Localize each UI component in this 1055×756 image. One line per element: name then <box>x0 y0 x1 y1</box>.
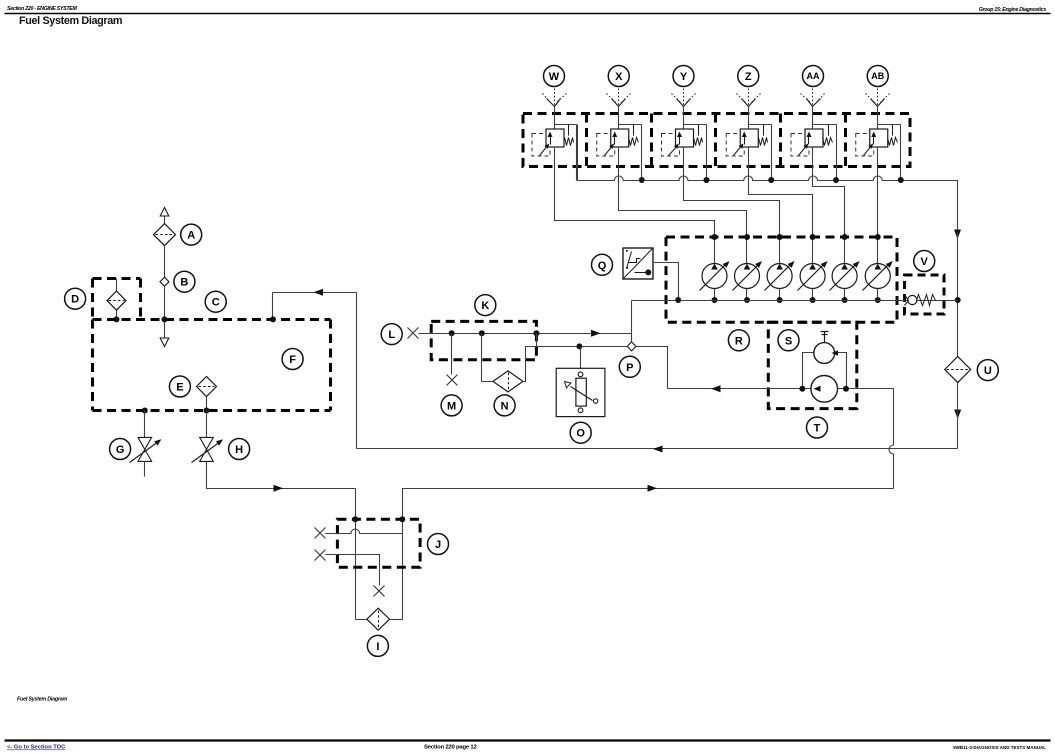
label D <box>65 288 86 309</box>
pump dashed box S <box>768 322 857 408</box>
injector return bus wire <box>578 125 958 234</box>
svg-text:Q: Q <box>598 260 607 272</box>
plugged port X1 <box>315 528 326 539</box>
tank drain arrow <box>160 320 169 347</box>
svg-text:K: K <box>481 300 489 312</box>
label S <box>778 330 799 351</box>
injector Z spray nozzle <box>737 89 761 107</box>
svg-text:R: R <box>735 335 743 347</box>
sensor Q wire <box>653 263 679 301</box>
label J <box>428 534 449 555</box>
flow arrow below U <box>954 410 961 420</box>
injector Z return branch wire <box>771 125 773 181</box>
svg-text:W: W <box>549 71 560 83</box>
injector driver solenoid 2 <box>733 234 763 303</box>
flow arrow down to filter U <box>954 230 961 240</box>
svg-text:Section 220 page 12: Section 220 page 12 <box>424 745 477 751</box>
label M <box>441 395 462 416</box>
injector driver solenoid 6 <box>863 234 893 303</box>
J top edge junction dots <box>352 516 405 522</box>
junction dot to sensor O <box>576 343 582 349</box>
injector Z solenoid valve <box>734 107 772 156</box>
label I <box>367 635 388 656</box>
plugged port X3 <box>374 586 385 597</box>
injector bank dashed enclosure <box>523 114 910 167</box>
wire from bus to fuel cooler line <box>957 233 959 357</box>
svg-text:Y: Y <box>680 71 688 83</box>
label O <box>570 422 591 443</box>
svg-text:P: P <box>626 362 633 374</box>
injector AA spray nozzle <box>801 89 825 107</box>
orifice B <box>160 277 169 286</box>
supply wire out of filter I <box>403 489 894 620</box>
injector AB supply wire to driver <box>877 147 879 237</box>
injector X return branch wire <box>641 125 643 181</box>
wire to filter N <box>482 334 493 382</box>
svg-text:<- Go to Section TOC: <- Go to Section TOC <box>7 745 66 751</box>
X1 wire with hop <box>325 529 402 533</box>
wire A to B <box>164 246 166 278</box>
wire B to tank <box>164 287 166 320</box>
return wire into tank bus <box>273 292 357 294</box>
injector W solenoid valve <box>540 107 577 156</box>
fittings dashed box K <box>431 321 536 359</box>
fuel filter U <box>945 357 971 383</box>
injector Y spray nozzle <box>672 89 696 107</box>
flow arrow toward pump suction <box>648 485 658 492</box>
label Q <box>592 254 613 275</box>
injector driver solenoid 5 <box>830 234 860 303</box>
injector W pilot dashed box <box>532 134 550 157</box>
label U <box>977 360 998 381</box>
svg-text:S: S <box>785 335 792 347</box>
svg-text:9WB11-3-DIAGNOSIS AND TESTS MA: 9WB11-3-DIAGNOSIS AND TESTS MANUAL <box>953 745 1046 750</box>
label G <box>110 439 131 460</box>
wire pump to tank return line <box>889 389 894 489</box>
svg-text:T: T <box>814 422 821 434</box>
suction filter I <box>356 608 403 630</box>
injector X supply wire to driver <box>619 147 747 237</box>
svg-text:Group 15: Engine Diagnostics: Group 15: Engine Diagnostics <box>979 7 1047 13</box>
return riser wire <box>356 293 358 449</box>
svg-text:AB: AB <box>871 71 884 81</box>
svg-text:C: C <box>212 297 220 309</box>
injector W supply wire to driver <box>555 147 715 237</box>
svg-text:U: U <box>984 365 992 377</box>
injector Z supply wire to driver <box>749 147 813 237</box>
injector AA label <box>803 66 824 87</box>
injector Z pilot dashed box <box>726 134 744 157</box>
injector Y label <box>673 66 694 87</box>
injector X label <box>608 66 629 87</box>
tank fittings dashed box J <box>337 519 420 567</box>
label N <box>494 395 515 416</box>
breather arrow above A <box>160 208 169 224</box>
svg-text:H: H <box>235 444 243 456</box>
X2 wire <box>326 555 380 586</box>
filler strainer filter <box>107 279 126 320</box>
injector W label <box>544 66 565 87</box>
pump suction/outlet wire <box>668 388 894 390</box>
jumper wire at K outlet <box>536 334 538 347</box>
restrictor valve H <box>192 411 224 463</box>
injector driver solenoid 4 <box>798 234 828 303</box>
injector Y solenoid valve <box>669 107 707 156</box>
label P <box>619 356 640 377</box>
injector W spray nozzle <box>543 89 567 107</box>
label R <box>728 330 749 351</box>
label B <box>174 271 195 292</box>
label V <box>914 251 935 272</box>
fuel inlet wire <box>419 333 632 335</box>
footer rule <box>5 739 1051 741</box>
injector AA pilot dashed box <box>791 134 809 157</box>
svg-text:J: J <box>435 539 441 551</box>
inlet wire dots <box>449 330 540 336</box>
injector Y pilot dashed box <box>662 134 680 157</box>
node P diamond <box>627 342 636 351</box>
svg-text:Fuel System Diagram: Fuel System Diagram <box>19 15 122 27</box>
injector Z label <box>738 66 759 87</box>
svg-text:Fuel System Diagram: Fuel System Diagram <box>17 697 68 703</box>
bypass valve wire loop <box>803 353 847 389</box>
wire E down <box>206 397 208 411</box>
svg-text:X: X <box>615 71 623 83</box>
svg-text:I: I <box>376 641 379 653</box>
injector X spray nozzle <box>607 89 631 107</box>
flow arrow toward pump <box>591 330 601 337</box>
svg-text:V: V <box>921 256 929 268</box>
label C <box>205 291 226 312</box>
label K <box>475 295 496 316</box>
supply wire into tank fittings J <box>355 489 357 620</box>
bypass relief valve circle <box>814 343 838 364</box>
inline filter N <box>493 371 523 392</box>
wire to plugged port M <box>451 334 453 375</box>
check valve with spring <box>897 295 958 306</box>
filler cap dashed box D <box>93 279 141 320</box>
flow arrow toward tank <box>314 289 324 296</box>
svg-text:D: D <box>71 294 79 306</box>
return wire to cooler line <box>957 383 959 449</box>
svg-text:M: M <box>447 400 456 412</box>
valve V dashed box <box>905 275 945 314</box>
flow arrow out of pump <box>711 385 721 392</box>
label A <box>181 224 202 245</box>
restrictor valve G <box>130 411 162 477</box>
svg-text:G: G <box>116 444 125 456</box>
svg-text:A: A <box>187 230 195 242</box>
flow arrow on return wire <box>653 446 663 453</box>
suction strainer E <box>197 377 217 397</box>
ECU supply bus wire <box>632 300 958 302</box>
injector AA solenoid valve <box>799 107 837 156</box>
injector AB label <box>867 66 888 87</box>
plugged port L <box>408 328 419 339</box>
injector AA supply wire to driver <box>813 147 845 237</box>
injector driver solenoid 3 <box>765 234 795 303</box>
injector Y return branch wire <box>706 125 708 181</box>
filter N outlet wire <box>523 347 668 389</box>
plugged port M <box>447 375 458 386</box>
fuel temp/pressure sensor O <box>556 347 605 417</box>
injector AB solenoid valve <box>864 107 901 156</box>
injector AB spray nozzle <box>866 89 890 107</box>
relief valve adjusting stem <box>821 332 829 343</box>
label F <box>282 349 303 370</box>
svg-text:L: L <box>388 329 395 341</box>
injector AB return branch wire <box>900 125 902 181</box>
vent filter A <box>154 224 176 246</box>
flow arrow on supply line <box>274 485 284 492</box>
svg-text:N: N <box>501 400 509 412</box>
svg-text:AA: AA <box>807 71 820 81</box>
ECU dashed box R <box>666 237 897 322</box>
label E <box>169 376 190 397</box>
injector X pilot dashed box <box>597 134 615 157</box>
transfer pump T circle <box>811 376 838 403</box>
tank outlet dots <box>142 408 210 414</box>
header rule <box>5 13 1051 15</box>
injector AB pilot dashed box <box>856 134 874 157</box>
label H <box>229 439 250 460</box>
tank junction dots <box>114 316 277 322</box>
label L <box>381 324 402 345</box>
plugged port X2 <box>315 550 326 561</box>
label T <box>807 417 828 438</box>
injector W return branch wire <box>576 125 578 181</box>
svg-text:E: E <box>176 381 183 393</box>
fuel tank dashed box C/F <box>93 320 331 411</box>
injector X solenoid valve <box>605 107 642 156</box>
svg-text:Section 220 - ENGINE SYSTEM: Section 220 - ENGINE SYSTEM <box>7 6 77 12</box>
wire H to tank supply line <box>207 462 356 489</box>
injector AA return branch wire <box>836 125 838 181</box>
svg-text:Z: Z <box>745 71 752 83</box>
fuel return wire to cooler <box>357 448 958 450</box>
svg-text:B: B <box>180 277 188 289</box>
svg-text:F: F <box>289 354 296 366</box>
return bus junction dots <box>639 177 904 183</box>
injector Y supply wire to driver <box>684 147 780 237</box>
injector driver solenoid 1 <box>700 234 730 303</box>
wire ECU bus to node P <box>631 301 633 342</box>
svg-text:O: O <box>576 428 585 440</box>
